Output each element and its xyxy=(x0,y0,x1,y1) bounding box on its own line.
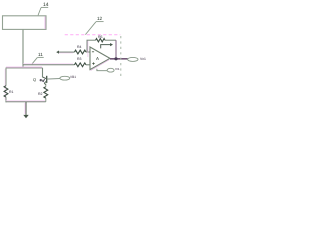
resistor R4 xyxy=(75,45,86,54)
label 12 with leader xyxy=(85,16,103,35)
svg-text:R2: R2 xyxy=(38,92,43,96)
junction dot at transistor base node xyxy=(40,79,42,81)
wire: R1 down to bottom rail xyxy=(5,97,7,102)
transistor Q xyxy=(40,68,47,85)
wire: non-inverting rail from stem to R3 xyxy=(23,64,75,65)
wire: stem from block 14 down xyxy=(22,29,24,68)
svg-text:R4: R4 xyxy=(77,45,82,49)
svg-text:12: 12 xyxy=(97,16,103,21)
block 14 (rectangle) xyxy=(3,16,47,30)
label 14 with leader xyxy=(38,2,49,15)
svg-text:Vo1: Vo1 xyxy=(140,57,146,61)
svg-text:Vr1: Vr1 xyxy=(115,67,120,71)
svg-text:Q: Q xyxy=(33,77,36,82)
label 11 with leader xyxy=(32,52,44,64)
svg-text:R1: R1 xyxy=(9,90,14,94)
svg-text:R5: R5 xyxy=(98,35,103,39)
output wire xyxy=(110,58,128,60)
dashed boundary 12: right edge xyxy=(120,36,122,76)
dashed boundary 12: top edge xyxy=(65,34,121,36)
feedback top wire left xyxy=(87,39,96,41)
resistor R1 xyxy=(4,86,13,97)
wire: base of Q to terminal oval xyxy=(47,78,60,81)
resistor R3 xyxy=(75,57,86,67)
svg-text:R3: R3 xyxy=(77,57,82,61)
wire: lower rail (pink tinged) from left branch to transistor xyxy=(6,66,43,69)
svg-text:VB1: VB1 xyxy=(70,75,76,79)
terminal oval VB at transistor base xyxy=(60,75,76,80)
current arrow into node (left pointing) xyxy=(56,51,74,54)
ground arrow (current direction) xyxy=(23,102,28,118)
feedback top wire right and drop to output xyxy=(105,40,116,59)
wire: bottom rail xyxy=(6,100,46,103)
wire: R3 to op-amp + input xyxy=(86,64,90,66)
output terminal oval Vo xyxy=(128,57,146,61)
wire: left branch down to R1 xyxy=(4,68,7,100)
wire: R4 to op-amp - input xyxy=(86,51,90,53)
junction dot at output xyxy=(114,57,117,60)
svg-text:A: A xyxy=(96,56,99,61)
signal flow arrow above op-amp xyxy=(101,43,113,48)
wire: + input reference tap xyxy=(97,69,107,71)
resistor R2 xyxy=(38,84,48,102)
reference terminal oval Vr xyxy=(107,67,120,72)
op-amp A xyxy=(90,47,110,71)
resistor R5 xyxy=(96,35,105,42)
wire: feedback riser xyxy=(86,40,89,57)
svg-text:11: 11 xyxy=(38,52,43,57)
